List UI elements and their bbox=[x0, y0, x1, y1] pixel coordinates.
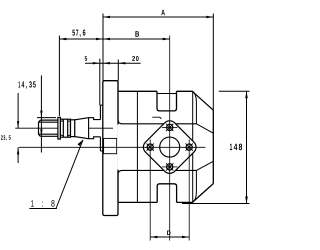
edge under top notch bbox=[157, 93, 177, 95]
dimension 14,35 lower arrow bbox=[40, 118, 42, 153]
front flange plate bbox=[103, 81, 118, 216]
extension line left (57,6) bbox=[58, 36, 60, 117]
dimension 5/20 line bbox=[85, 62, 141, 64]
dimension A text bbox=[161, 10, 165, 16]
cover back face bbox=[212, 110, 214, 184]
hidden hub rect lower bbox=[104, 138, 117, 153]
bolt hole bottom bbox=[162, 163, 177, 170]
shaft threaded end bbox=[39, 120, 58, 136]
dimension 57,6 text bbox=[72, 30, 85, 37]
cover fillet bottom bbox=[193, 170, 197, 202]
tapered shaft 1:8 bbox=[75, 118, 89, 139]
dimension 23,5 lower arrow bbox=[17, 147, 19, 163]
cover fillet top bbox=[193, 91, 197, 124]
extension line at plate face (A,B,57,6) bbox=[102, 14, 104, 81]
tab washer right of nut bbox=[71, 120, 75, 137]
nut bbox=[60, 119, 70, 137]
dimension 23,5 upper arrow bbox=[17, 93, 19, 128]
148 extension top bbox=[219, 90, 250, 92]
shaft centerline bbox=[15, 127, 113, 129]
dimension 5 text bbox=[85, 56, 88, 61]
dimension 148 bbox=[245, 91, 248, 203]
flange diamond bbox=[140, 118, 198, 176]
extension line hub face (5) bbox=[99, 59, 101, 106]
bottom notch bbox=[157, 184, 176, 203]
washer bbox=[58, 117, 61, 139]
flange horizontal centerline bbox=[19, 146, 206, 148]
1:8 text bbox=[31, 200, 54, 207]
dimension B line bbox=[103, 38, 170, 41]
dimension 57,6 line bbox=[59, 38, 103, 41]
small hidden edge left of top hole bbox=[152, 117, 161, 119]
bolt hole top bbox=[162, 124, 177, 131]
dimension A line bbox=[103, 16, 213, 19]
D text bbox=[167, 231, 170, 235]
cover top chamfer bbox=[193, 92, 213, 110]
cover inner diagonal bottom bbox=[196, 161, 213, 170]
joint line body/cover bbox=[192, 91, 194, 202]
plate right edge upper with corner into band bbox=[118, 81, 196, 124]
body band over plate edge bbox=[117, 125, 196, 170]
body top edge bbox=[118, 90, 193, 92]
tick line for 14,35 bbox=[37, 117, 56, 119]
flange center bore bbox=[160, 137, 180, 157]
dimension 23,5 text bbox=[1, 135, 11, 140]
top notch bbox=[157, 91, 177, 111]
plate right edge lower with corner into band bbox=[118, 170, 196, 202]
leader line 1:8 bbox=[29, 140, 83, 209]
cover inner diagonal top bbox=[196, 124, 213, 133]
bolt hole right bbox=[186, 140, 193, 241]
148 extension bottom bbox=[182, 203, 250, 205]
extension line right (A) / pump back face upper bbox=[212, 14, 214, 111]
vertical centerline of flange bbox=[169, 36, 171, 241]
dimension 20 text bbox=[132, 56, 138, 61]
bolt hole left bbox=[147, 140, 154, 241]
dimension B text bbox=[135, 31, 139, 36]
dimension 14,35 text bbox=[18, 81, 35, 89]
extension line 20 right bbox=[117, 60, 119, 81]
hub face bbox=[100, 105, 103, 151]
shaft boss bbox=[89, 118, 101, 139]
joint line body/front bbox=[136, 91, 138, 202]
148 text bbox=[230, 144, 242, 151]
cover bottom chamfer bbox=[193, 184, 213, 202]
body bottom edge bbox=[118, 201, 193, 203]
dimension 14,35 upper arrow bbox=[40, 75, 42, 117]
dimension D bbox=[150, 236, 189, 239]
